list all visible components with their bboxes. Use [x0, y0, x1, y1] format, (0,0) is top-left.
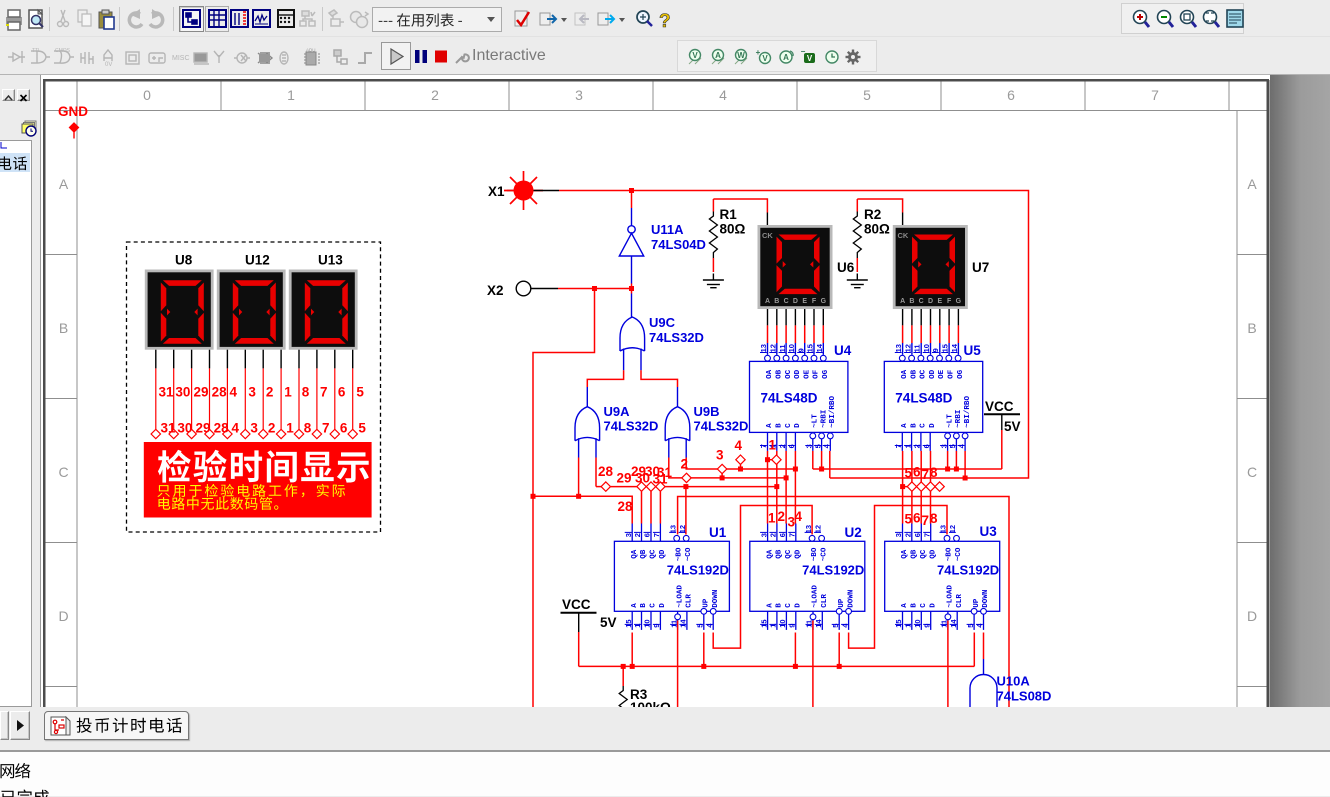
lamp X1 — [488, 171, 543, 210]
resistor R1 80Ohm — [709, 199, 745, 272]
wire X1 stub — [534, 190, 560, 192]
display U6 — [758, 225, 855, 325]
wire 5V rail — [579, 632, 975, 669]
wire U7 segment bus — [903, 325, 959, 354]
connectors display nets — [151, 429, 357, 438]
wire display nets — [156, 368, 353, 429]
display U12 — [217, 253, 286, 369]
wire net X1 top — [559, 191, 1029, 479]
ic U5 74LS48D — [884, 343, 982, 451]
or-gate U9B 74LS32D — [665, 407, 690, 458]
wire U3 DOWN to U10A — [983, 633, 985, 676]
wire net 3 — [686, 458, 798, 474]
ic U4 74LS48D — [750, 343, 852, 451]
wire BCD columns U5-U3 — [903, 451, 931, 524]
inverter U11A 74LS04D — [619, 226, 643, 284]
display U13 — [289, 253, 358, 369]
wire DOWN U2 cascade — [849, 506, 947, 649]
vcc VCC 5V right — [984, 399, 1021, 434]
net labels display row2 — [161, 420, 367, 435]
dashed annotation box — [127, 242, 381, 532]
wire CK U6 — [713, 199, 767, 225]
connector X2 — [487, 281, 558, 298]
resistor R3 100kOhm — [619, 666, 671, 732]
and-gate U10A 74LS08D — [970, 674, 1051, 712]
or-gate U9C 74LS32D — [620, 317, 645, 370]
ground R2 — [847, 274, 868, 288]
ground node GND — [58, 104, 88, 139]
wire nets 29 30 31 — [596, 458, 779, 535]
wire inverter in — [631, 191, 633, 226]
wire nets 5-8 connectors — [900, 482, 944, 491]
ic U1 74LS192D — [614, 524, 729, 630]
wire U6 segment bus — [768, 325, 824, 354]
wire U9C out — [631, 289, 633, 294]
ic U2 74LS192D — [750, 524, 865, 630]
net labels display row1 — [159, 385, 365, 400]
ic U3 74LS192D — [885, 524, 1000, 630]
connector net 1 — [765, 455, 781, 464]
vcc VCC 5V left — [561, 597, 617, 632]
annotation red box — [144, 442, 372, 518]
wire LOAD drops — [678, 621, 948, 712]
wire DOWN U1 cascade — [713, 506, 812, 649]
wire BO U1 chain — [678, 497, 1009, 712]
wire inverter out — [631, 284, 633, 289]
wire net 2 — [669, 458, 789, 483]
wire net X2 — [533, 289, 632, 712]
wire net 28 — [531, 458, 633, 524]
wire CK U7 — [857, 199, 902, 225]
wire U9C inputs — [587, 370, 677, 387]
resistor R2 80Ohm — [853, 199, 890, 272]
display U8 — [145, 253, 214, 369]
display U7 — [893, 225, 989, 325]
wire BCD columns U4-U2 — [768, 451, 796, 524]
or-gate U9A 74LS32D — [575, 407, 600, 458]
wire 5V to LT RBI — [813, 430, 1002, 472]
connector net 4 — [736, 455, 745, 464]
ground R1 — [703, 274, 724, 288]
net labels middle cluster — [598, 438, 938, 530]
